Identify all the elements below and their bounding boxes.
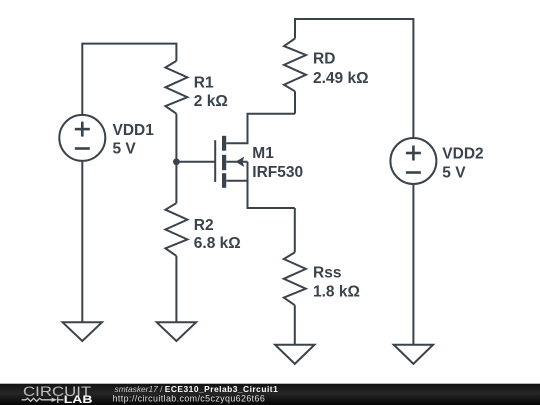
svg-text:smtasker17 / ECE310_Prelab3_Ci: smtasker17 / ECE310_Prelab3_Circuit1 bbox=[115, 384, 279, 394]
svg-text:R1: R1 bbox=[194, 74, 214, 91]
svg-text:5 V: 5 V bbox=[113, 141, 137, 158]
svg-text:LAB: LAB bbox=[64, 394, 93, 405]
svg-text:1.8 kΩ: 1.8 kΩ bbox=[313, 284, 360, 301]
svg-text:2 kΩ: 2 kΩ bbox=[194, 93, 228, 110]
svg-text:6.8 kΩ: 6.8 kΩ bbox=[194, 235, 241, 252]
svg-text:2.49 kΩ: 2.49 kΩ bbox=[313, 70, 369, 87]
svg-text:IRF530: IRF530 bbox=[252, 164, 303, 181]
svg-text:http://circuitlab.com/c5czyqu6: http://circuitlab.com/c5czyqu626t66 bbox=[113, 394, 266, 404]
svg-text:M1: M1 bbox=[252, 145, 274, 162]
svg-text:RD: RD bbox=[313, 51, 335, 68]
svg-text:VDD1: VDD1 bbox=[113, 122, 155, 139]
svg-text:R2: R2 bbox=[194, 217, 214, 234]
svg-text:5 V: 5 V bbox=[442, 164, 466, 181]
svg-text:Rss: Rss bbox=[313, 265, 341, 282]
svg-text:VDD2: VDD2 bbox=[442, 146, 483, 163]
